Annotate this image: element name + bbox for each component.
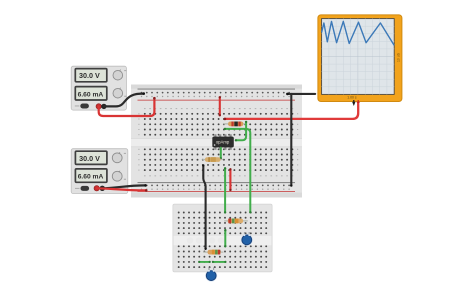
wire green BB2 row9 left [198, 261, 211, 263]
P2 voltage knob [112, 152, 126, 163]
P2 black terminal [100, 186, 105, 191]
op-amp U1 [213, 134, 234, 150]
P1 current knob [113, 88, 126, 98]
breadboard BB1 body [131, 85, 302, 198]
BB1 bottom rail negative line [138, 181, 296, 184]
BB1 top rail positive line [138, 99, 296, 102]
P2 current knob [112, 171, 126, 181]
wire red long to SCOPE1 red probe [224, 104, 359, 120]
wire P1 black to BB1 top negative rail [104, 92, 145, 106]
wire red from top positive rail to row A col15 [219, 96, 221, 116]
SCOPE1 waveform trace [322, 21, 395, 45]
P1 red terminal [96, 104, 101, 109]
P2 voltage display 30.0 V [75, 151, 107, 164]
svg-text:1.00 s: 1.00 s [347, 96, 357, 100]
svg-text:6.60 mA: 6.60 mA [78, 91, 104, 98]
resistor R1 [223, 122, 246, 127]
svg-text:10 uS: 10 uS [397, 52, 401, 62]
P1 black terminal [101, 104, 106, 109]
SCOPE1 volt scale label [397, 52, 401, 62]
power supply P2 [71, 149, 128, 194]
BB1 column number labels [144, 108, 293, 176]
resistor R3 [224, 219, 248, 224]
power supply P1 [71, 66, 126, 110]
BB1 bottom rail positive line [138, 190, 296, 193]
wire P2 black to BB1 bottom rail [103, 184, 147, 188]
oscilloscope SCOPE1 [318, 15, 402, 102]
svg-text:opAmp: opAmp [216, 140, 230, 145]
wire black top rail to bottom rail (right side vertical) [290, 94, 292, 187]
P2 power switch [75, 186, 89, 191]
wire green opamp pin to R2 [220, 148, 222, 160]
mini breadboard BB2 body [173, 204, 272, 272]
SCOPE1 red probe [357, 100, 360, 106]
BB1 row letter labels [138, 113, 298, 170]
resistor R2 [202, 157, 223, 162]
P1 current display 6.60 mA [75, 87, 107, 100]
BB1 top rail negative line [138, 88, 296, 91]
wire P2 red to BB1 bottom positive rail [97, 188, 148, 191]
wire green R1 output to opamp pin [235, 121, 248, 142]
SCOPE1 time scale label [347, 96, 357, 100]
wire green across BB2 channel [224, 229, 226, 248]
BB1 main grid holes [144, 113, 293, 171]
wire green row D to BB2 (long) [224, 128, 252, 214]
svg-text:6.60 mA: 6.60 mA [78, 174, 104, 181]
capacitor C1 [241, 232, 253, 246]
wire green row J to BB2 (long) [224, 167, 226, 213]
wire black top rail to oscilloscope black probe (passes behind scope) [286, 93, 315, 96]
SCOPE1 black probe [352, 100, 355, 106]
BB2 holes [178, 212, 267, 268]
SCOPE1 screen [322, 19, 395, 95]
svg-text:30.0 V: 30.0 V [79, 71, 100, 80]
P1 voltage knob [113, 70, 126, 80]
wire green BB2 row9 right [212, 261, 227, 263]
svg-text:30.0 V: 30.0 V [79, 154, 100, 163]
P2 current display 6.60 mA [75, 169, 107, 182]
BB1 rail holes [141, 92, 290, 190]
wire black row I to BB2 (long) [202, 164, 207, 250]
P1 power switch [75, 104, 89, 109]
P1 voltage display 30.0 V [75, 69, 107, 82]
resistor R4 [203, 250, 223, 255]
capacitor C2 [205, 268, 217, 282]
wire red row J to bottom positive rail [229, 168, 231, 191]
wire P1 red to BB1 top positive rail [99, 97, 156, 116]
P2 red terminal [94, 186, 99, 191]
